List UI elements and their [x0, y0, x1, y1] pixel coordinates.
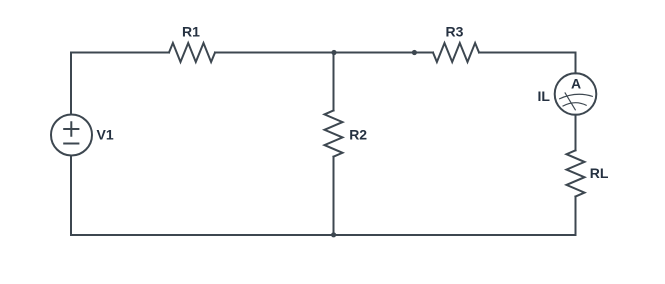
wire RL to bottom-right corner [575, 197, 577, 236]
svg-text:R1: R1 [182, 24, 200, 40]
svg-text:R2: R2 [349, 126, 367, 142]
junction bottom node dot [331, 232, 336, 237]
ammeter scale arc upper [559, 94, 593, 99]
wire node A to R2 [333, 53, 335, 111]
svg-text:V1: V1 [97, 127, 114, 143]
svg-text:R3: R3 [446, 24, 464, 40]
V1 plus symbol [64, 122, 78, 136]
resistor R1 [169, 43, 215, 62]
V1 minus symbol [64, 143, 78, 145]
ammeter needle [565, 92, 576, 110]
wire R1 to node A [215, 52, 334, 54]
resistor R2 [325, 111, 343, 157]
svg-text:A: A [571, 76, 581, 92]
resistor R3 [433, 43, 479, 62]
wire right vertical to ammeter [575, 53, 577, 74]
wire left vertical top (to V1) [70, 53, 72, 115]
wire V1 to bottom-left corner [70, 156, 72, 236]
junction node B dot [412, 50, 417, 55]
wire bottom horizontal [71, 234, 576, 236]
wire R2 to bottom node [333, 157, 335, 235]
voltage source V1 [51, 115, 92, 156]
svg-text:IL: IL [538, 88, 551, 104]
resistor RL [567, 150, 585, 196]
ammeter scale arc lower [563, 103, 587, 107]
junction node A dot [331, 50, 336, 55]
wire ammeter to RL [575, 115, 577, 151]
wire node B to R3 [414, 52, 433, 54]
wire node A to node B [334, 52, 414, 54]
wire R3 to top-right corner [479, 52, 576, 54]
ammeter U1 circle [555, 73, 597, 115]
wire top-left horizontal (V1 to R1) [71, 52, 169, 54]
svg-text:RL: RL [590, 165, 609, 181]
